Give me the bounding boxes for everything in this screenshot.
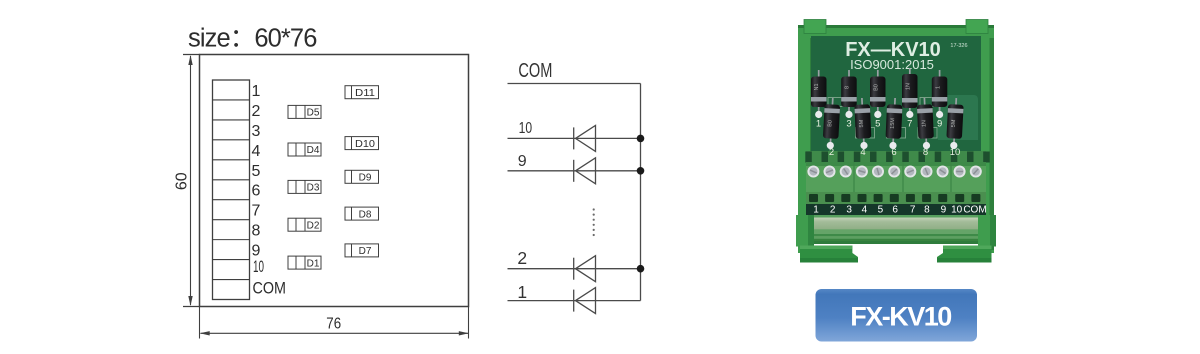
svg-text:1N: 1N: [921, 120, 927, 127]
svg-text:4: 4: [252, 143, 261, 160]
terminal block body: [806, 162, 986, 192]
svg-text:3: 3: [846, 205, 852, 216]
ellipsis dotted line: [593, 208, 595, 236]
diode D3 photo: [841, 70, 857, 130]
svg-text:D2: D2: [307, 220, 320, 231]
right side rail: [978, 25, 994, 253]
PCB lighter right region: [938, 95, 978, 140]
svg-text:B0: B0: [827, 120, 833, 127]
svg-text:6: 6: [252, 183, 261, 200]
screw 3: [840, 166, 852, 178]
svg-text:1: 1: [936, 86, 942, 89]
svg-text:4: 4: [862, 205, 868, 216]
svg-text:D11: D11: [355, 88, 375, 99]
svg-text:5M: 5M: [951, 119, 957, 127]
svg-text:D10: D10: [355, 139, 375, 150]
diode row 9 cathode bar: [573, 160, 575, 182]
terminal strip outline: [213, 80, 250, 300]
label strip: [806, 204, 986, 215]
wire row 10: [508, 137, 641, 139]
wire entry face: [806, 192, 986, 204]
diode footprint D2: [288, 218, 321, 231]
blue model label button: [816, 289, 978, 342]
svg-text:76: 76: [326, 316, 341, 333]
PCB: [811, 36, 981, 192]
wire row 1: [508, 300, 641, 302]
svg-text:60: 60: [174, 172, 191, 190]
left wing: [796, 215, 814, 247]
diode footprint D7: [345, 244, 379, 257]
svg-text:17-326: 17-326: [950, 43, 967, 49]
diode D8 photo: [917, 98, 935, 150]
svg-text:2: 2: [517, 248, 527, 268]
wire row 2: [508, 268, 641, 270]
diode D1 photo: [811, 70, 827, 130]
right top clip: [966, 20, 988, 34]
svg-text:9: 9: [518, 153, 527, 170]
diode footprint D5: [288, 105, 321, 118]
svg-text:D7: D7: [359, 246, 372, 257]
svg-text:6: 6: [891, 147, 896, 158]
top rail: [798, 25, 994, 38]
svg-text:10: 10: [519, 120, 533, 137]
right foot: [937, 246, 992, 263]
svg-text:10: 10: [253, 257, 264, 276]
svg-text:5: 5: [878, 205, 884, 216]
svg-text:15M: 15M: [890, 118, 896, 129]
svg-text:8: 8: [923, 147, 928, 158]
screw 1: [807, 166, 819, 178]
svg-text:7: 7: [907, 119, 912, 130]
diode row 2 cathode bar: [573, 258, 575, 280]
diode footprint D11: [345, 86, 379, 99]
svg-text:D4: D4: [307, 145, 320, 156]
left foot: [800, 246, 858, 263]
wire bus vertical: [640, 84, 642, 301]
terminal block seams: [853, 162, 855, 192]
diode footprint D8: [345, 207, 379, 220]
svg-text:8: 8: [845, 86, 851, 89]
svg-text:5: 5: [252, 163, 261, 180]
junction dot node 10: [637, 135, 645, 143]
svg-text:FX-KV10: FX-KV10: [850, 302, 951, 332]
diode D9 photo: [932, 70, 948, 130]
diode D6 photo: [885, 98, 903, 150]
dimension line 60: [190, 56, 192, 305]
diode footprint D3: [288, 180, 321, 193]
diode D4 photo: [854, 98, 872, 150]
module outline rectangle: [200, 55, 469, 307]
svg-text:2: 2: [252, 103, 261, 120]
wire COM horizontal: [508, 83, 641, 85]
lower housing: [812, 215, 980, 244]
screw 2: [824, 166, 836, 178]
terminal cell dividers: [213, 100, 250, 280]
left side rail: [798, 25, 814, 253]
svg-text:COM: COM: [963, 205, 986, 216]
svg-text:ISO9001:2015: ISO9001:2015: [850, 57, 934, 72]
silkscreen outline boxes: [828, 98, 937, 139]
svg-text:8: 8: [924, 205, 930, 216]
diode D2 photo: [822, 98, 840, 150]
svg-text:9: 9: [937, 119, 942, 130]
svg-text:1: 1: [252, 83, 261, 100]
left top clip: [804, 20, 826, 34]
svg-text:7: 7: [910, 205, 916, 216]
svg-text:5M: 5M: [859, 119, 865, 127]
junction dot node 2: [637, 265, 645, 273]
svg-text:10: 10: [950, 147, 961, 158]
diode row 1 triangle: [576, 288, 596, 314]
svg-text:COM: COM: [518, 60, 552, 82]
svg-text:1: 1: [816, 119, 821, 130]
svg-text:8: 8: [252, 223, 261, 240]
screw 7: [904, 166, 916, 178]
svg-text:1N: 1N: [906, 83, 912, 90]
diode row 2 triangle: [576, 256, 596, 282]
svg-text:2: 2: [830, 205, 836, 216]
left extension down: [199, 307, 201, 339]
svg-text:COM: COM: [253, 279, 287, 298]
svg-text:3: 3: [252, 123, 261, 140]
screw 4: [856, 166, 868, 178]
svg-text:D1: D1: [307, 258, 320, 269]
diode row 10 triangle: [576, 125, 596, 151]
slot strip between PCB and terminals: [806, 151, 986, 163]
svg-text:3: 3: [846, 119, 851, 130]
svg-text:1: 1: [813, 205, 819, 216]
svg-text:4: 4: [860, 147, 865, 158]
diode footprint D1: [288, 256, 321, 269]
svg-text:D9: D9: [359, 173, 372, 184]
svg-text:10: 10: [951, 205, 963, 216]
diode row 10 cathode bar: [573, 127, 575, 149]
svg-text:9: 9: [941, 205, 947, 216]
svg-text:N1: N1: [814, 83, 820, 90]
diode footprint D9: [345, 170, 379, 183]
screw 9: [937, 166, 949, 178]
svg-text:D8: D8: [359, 209, 372, 220]
svg-text:5: 5: [875, 119, 880, 130]
svg-text:D3: D3: [307, 183, 320, 194]
svg-text:D5: D5: [307, 108, 320, 119]
svg-text:1: 1: [517, 282, 527, 302]
diode D10 photo: [946, 98, 964, 150]
diode row 1 cathode bar: [573, 290, 575, 312]
bottom extension line: [183, 306, 200, 308]
diode row 9 triangle: [576, 158, 596, 184]
svg-text:2: 2: [829, 147, 834, 158]
svg-text:7: 7: [252, 203, 261, 220]
dimension line 76: [201, 332, 469, 334]
right extension down: [468, 307, 470, 339]
screw 6: [888, 166, 900, 178]
terminal numbers: [252, 83, 287, 298]
svg-text:B0: B0: [874, 84, 880, 91]
diode D5 photo: [870, 70, 886, 130]
top extension line: [183, 54, 200, 56]
wire entry holes: [809, 194, 980, 202]
diode footprint D10: [345, 137, 379, 150]
screw 5: [872, 166, 884, 178]
diode D7 photo: [902, 68, 918, 130]
diode footprint D4: [288, 143, 321, 156]
svg-text:size：60*76: size：60*76: [188, 25, 317, 53]
svg-text:6: 6: [892, 205, 898, 216]
screw 11: [970, 166, 982, 178]
right wing: [978, 215, 996, 247]
terminal screws: [807, 166, 981, 178]
wire row 9: [508, 170, 641, 172]
screw 10: [954, 166, 966, 178]
junction dot node 9: [637, 167, 645, 175]
screw 8: [921, 166, 933, 178]
